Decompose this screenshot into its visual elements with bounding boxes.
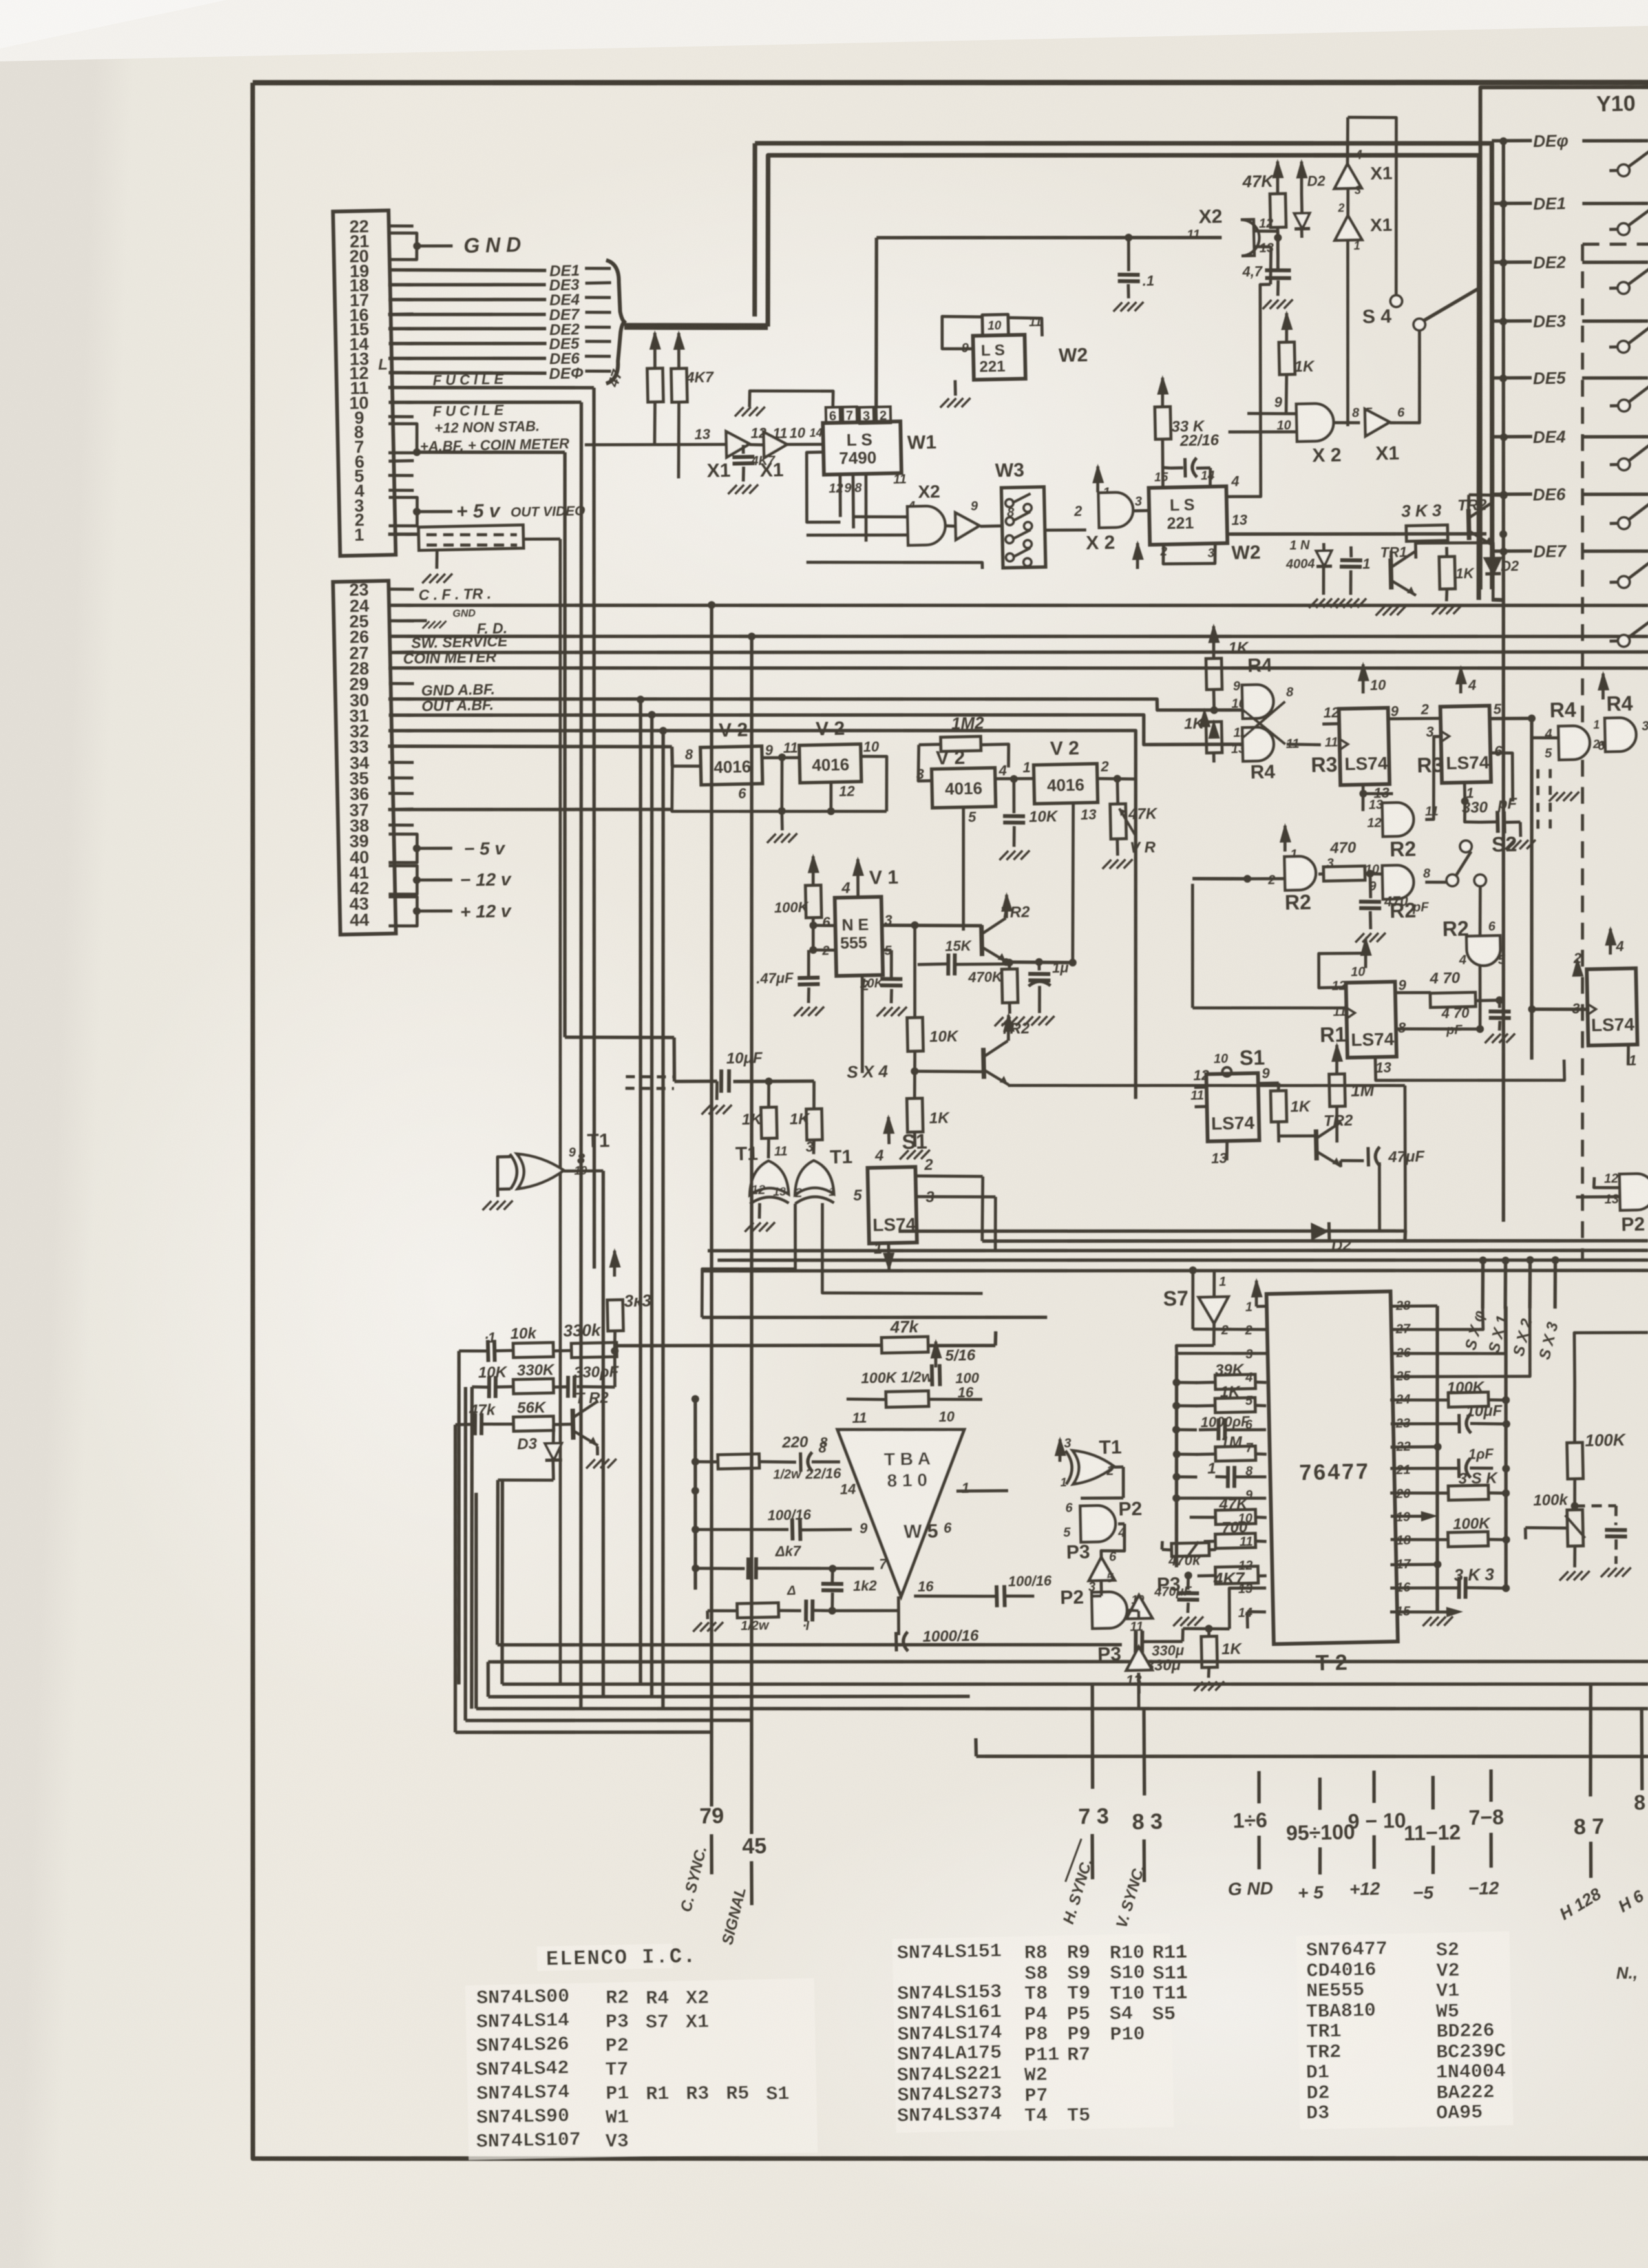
connector J1 pin stubs — [388, 226, 414, 227]
V2#2 wires — [860, 756, 888, 812]
switch box W3 — [1001, 487, 1046, 567]
wire 1680 820 connect — [1085, 521, 1086, 530]
wire bus jogs near sx — [1408, 1250, 1410, 1260]
wire SW.SERVICE — [389, 626, 1648, 678]
NE555 out pin3 — [882, 923, 982, 928]
wire to right LS74 — [1532, 1008, 1587, 1011]
inverter X1 b — [750, 445, 764, 445]
wire R2b in from node — [1370, 869, 1383, 874]
wire X2 lower inputs from W2 — [1234, 414, 1248, 452]
GND pin bracket 21-20 — [388, 233, 417, 260]
stub 73 — [1090, 1684, 1094, 1789]
resistor 4K7 vertical — [678, 333, 679, 368]
cap .1 with gnd — [1125, 234, 1132, 242]
pot 100k right — [1567, 1509, 1583, 1546]
wire R3b pin1 down to 330pF — [1464, 783, 1466, 801]
wire R3b q right — [1489, 718, 1532, 719]
bus upper horizontal — [755, 128, 1501, 605]
connector J2 pin stubs — [388, 589, 414, 590]
wire pin27 sx — [1390, 1309, 1483, 1332]
wire pin28 — [1390, 1305, 1437, 1307]
wire R4 out to R3 LS74 — [1287, 744, 1321, 746]
ground near cable — [436, 551, 438, 569]
diode D2 on bus — [1311, 1223, 1329, 1241]
wire DE bundle to bus — [624, 323, 768, 330]
label FUCILE x2 — [388, 383, 594, 392]
wire 100K to tri — [846, 1399, 847, 1429]
connector J2 body (pins 23-44) — [333, 581, 396, 935]
switch S4 — [1390, 295, 1402, 307]
wires RC rows left verticals — [452, 1351, 466, 1685]
cap .1 b — [1349, 547, 1353, 558]
wire bus verticals mid — [637, 696, 644, 704]
R4 cross wires — [1239, 702, 1287, 737]
wire R2b out to S2 — [1425, 881, 1452, 883]
resistor 47 vertical — [654, 333, 655, 368]
connector J1 body (pins 22-1) — [333, 211, 396, 556]
pin9 wire — [1176, 1496, 1266, 1500]
V2#3 wires — [918, 744, 931, 781]
cap 4,7 — [1277, 238, 1278, 269]
stub 9-10 +12 — [1373, 1770, 1375, 1803]
W2 pin13 wire right — [1226, 529, 1486, 539]
stub 95:100 +5 — [1319, 1778, 1320, 1810]
p22 wire — [1391, 1446, 1438, 1448]
wire xor route row — [702, 1310, 1047, 1325]
diode D2 b — [1492, 551, 1495, 558]
W1 top-left gnd loop — [749, 389, 834, 409]
resistor 1K r4b — [1212, 720, 1216, 724]
resistor 470K — [1008, 963, 1011, 970]
wire COIN METER — [388, 642, 1648, 695]
brace for DE bundle — [604, 260, 626, 384]
gate R4 right b — [1603, 673, 1604, 699]
resistor 1K t1a — [768, 1082, 770, 1108]
cap 10K gnd — [1013, 779, 1015, 814]
arrow p19 — [1391, 1516, 1422, 1517]
resistor 1M — [1336, 1045, 1338, 1074]
wire pin14 — [1247, 1612, 1266, 1613]
wires S1 right — [1340, 1160, 1364, 1161]
right rail 76477 — [1431, 1306, 1444, 1612]
wire NE555 bottom to 10K — [860, 976, 864, 1073]
Y10 DE lines — [1481, 141, 1526, 1221]
resistor 39K p4 — [1176, 1352, 1266, 1356]
V2#4 out wire — [1097, 778, 1136, 780]
pins 8-7 bracket +12V — [388, 423, 417, 454]
TBA right pins — [956, 1490, 1008, 1492]
resistor 1K s1 — [1278, 1083, 1279, 1091]
resistor 1K p area — [1207, 1629, 1210, 1637]
Y10 box — [1470, 82, 1648, 590]
wire W1 left loop — [805, 452, 840, 523]
wire pin2 from S7 — [1193, 1328, 1267, 1331]
wire F.D. — [388, 610, 1648, 663]
switch S2 — [1460, 841, 1472, 852]
junction dots sx — [1479, 1256, 1486, 1264]
resistor 33K — [1162, 378, 1163, 407]
pot 47K VR — [1110, 804, 1126, 839]
wire R1 pin8 loop — [1393, 969, 1523, 1031]
bus lower horizontal — [765, 140, 1489, 614]
wire R3a q to R3b — [1388, 718, 1440, 720]
resistor 1K d — [907, 1098, 923, 1132]
res 100K right col — [1554, 1259, 1555, 1261]
diode D2 top — [1301, 162, 1302, 194]
resistor 10K b — [913, 925, 917, 1014]
wire LS74r to P2 right — [1636, 1009, 1648, 1010]
Y10 dashed border — [1561, 244, 1604, 1260]
wire down from R3b pin6 — [1489, 752, 1514, 802]
stub 87 H128 — [1588, 1684, 1593, 1796]
wire X2 input from LS221 — [1268, 284, 1273, 414]
wire nest h4 — [465, 1714, 752, 1726]
resistor 4K7 mid — [742, 445, 745, 454]
stub right edge — [1640, 1709, 1643, 1790]
wire pin37 to V2 bus — [388, 804, 672, 815]
-12v bracket pins41-42 — [388, 865, 417, 895]
W2 lower pin4 wire up to bus — [1222, 284, 1275, 497]
left pin rail 76477 — [1223, 1354, 1234, 1588]
wire row30 to R4 1K node — [388, 681, 1252, 728]
resistor 1K r4a — [1213, 626, 1214, 658]
wire R2a in loop — [1363, 793, 1383, 812]
wire pin25 sx — [1389, 1308, 1531, 1380]
IC W2 LS221 upper — [973, 335, 1025, 380]
TBA left rail — [695, 1426, 850, 1433]
cap 470pF — [1369, 874, 1373, 898]
wire long 2545 left — [498, 1632, 1122, 1657]
TR2b emitter to right — [1008, 1077, 1405, 1094]
wire R2c left input — [1247, 878, 1285, 879]
wire into inverters X1 — [585, 442, 726, 448]
cap 1u — [1037, 962, 1041, 971]
cap 1000/16 — [898, 1597, 899, 1635]
wires R4 right — [1525, 719, 1539, 1060]
IC T2 76477 — [1267, 1292, 1398, 1644]
wire nest h1 — [502, 1660, 1648, 1708]
stub 11-12 -5 — [1432, 1776, 1433, 1809]
wire pin33 to V2 area — [388, 740, 672, 753]
W2 upper top pins — [982, 315, 1009, 337]
border frame — [253, 52, 1648, 114]
resistor 100K NE555 — [812, 856, 814, 885]
wires at P2 right — [1594, 1177, 1620, 1188]
resistor 47K top — [1277, 162, 1278, 194]
wire nest h3 — [476, 1684, 1648, 1733]
resistor 1K c — [1445, 547, 1448, 557]
wire X1 top to S4 frame — [1347, 116, 1400, 297]
wire D3 bottom loop — [498, 1479, 553, 1482]
wire 12-13 to down — [1270, 247, 1272, 284]
dashed pair small — [1537, 770, 1539, 833]
wire X1 out to S4 — [1388, 362, 1421, 423]
IC W1 LS7490 — [823, 421, 902, 474]
XOR outputs route — [700, 1204, 798, 1318]
V2#4 bottom wire 13 — [1070, 804, 1077, 963]
wire C.F.TR. — [388, 579, 1648, 632]
DE wires pins 19-12 — [388, 267, 546, 274]
resistor 1K t1b — [814, 1081, 815, 1109]
wire TR1-TR2 base link — [1188, 542, 1299, 587]
resistor 1K vertical — [1286, 313, 1287, 342]
wire nest verticals — [498, 1480, 507, 1684]
stub 1:6 GND — [1258, 1771, 1260, 1803]
table highlight stripes — [537, 1944, 673, 1971]
wire left loop R1 R2 — [1247, 831, 1364, 879]
wire R2a out up — [1424, 737, 1442, 820]
TR2a emitter node — [1006, 940, 1007, 982]
wire under W1 — [807, 559, 982, 573]
NE555 pin5 cap 10K — [881, 950, 891, 950]
bus lines above 76477 — [898, 1221, 1405, 1251]
dashed net right — [1575, 1505, 1616, 1506]
wire W3 out — [1044, 529, 1086, 530]
wire X2 out left — [876, 231, 1221, 245]
paper top edge highlight — [0, 0, 1648, 61]
wire R1 pin13 down right — [1375, 1054, 1565, 1084]
wire right col top — [1574, 1331, 1648, 1383]
S2 to R2d wire — [1479, 885, 1481, 936]
inverter X1 a — [726, 431, 750, 457]
V2#1 wires — [671, 762, 887, 816]
wire row32 staircase — [388, 715, 1143, 1115]
right rail gnd — [1437, 1588, 1438, 1613]
wire W3 to X2 gate — [1061, 529, 1079, 530]
cap .47uF — [813, 949, 834, 950]
wire to LS74 right low — [1532, 1008, 1587, 1011]
gate X2 before W2 — [1097, 467, 1099, 492]
IC W2 LS221 lower — [1148, 487, 1227, 545]
wire collector rail — [1270, 542, 1271, 543]
R1 top loop — [1318, 956, 1357, 984]
wire fucile verticals — [576, 388, 613, 1268]
wire pin26 sx — [1389, 1309, 1506, 1356]
arrow up pin1 — [1256, 1281, 1257, 1307]
wire long 2571 — [488, 1637, 1648, 1686]
wires P column — [1114, 1465, 1123, 1469]
pin1 shielded out-video cable — [388, 534, 418, 535]
-5v bracket pins39-40 — [388, 834, 417, 863]
grounds TR area — [1309, 599, 1318, 608]
p17 wire — [1390, 1564, 1437, 1566]
gnd 10uF — [717, 1081, 718, 1100]
wires around TR1/TR2 — [1227, 534, 1229, 535]
right rail verticals — [1500, 1307, 1512, 1588]
wire R2d down to R1 pin8 — [1479, 966, 1481, 1001]
gate R2 c inputs — [1284, 826, 1285, 852]
R1 wires — [1395, 992, 1431, 993]
wire row31 to R4 gate b — [389, 697, 1253, 762]
W2 lower bottom loop — [1163, 544, 1216, 565]
wire nest h5 — [456, 1727, 712, 1738]
+12v bracket pins43-44 — [388, 896, 417, 927]
gnd 4016 row — [780, 811, 783, 830]
pins 3-2 bracket +5v — [388, 497, 417, 527]
W2 upper gnd — [954, 380, 957, 395]
wire long 2718 right — [976, 1742, 1648, 1770]
Y10 switch contacts — [1618, 164, 1629, 176]
V2#3 bottom wire — [961, 808, 966, 930]
wire S4 down — [1419, 330, 1420, 362]
wire R3a pin13 node — [1363, 793, 1393, 794]
pin13 wire down — [1229, 1588, 1267, 1629]
long loop wire — [1225, 834, 1232, 999]
TBA810 triangle W5 — [838, 1427, 967, 1597]
stub 83 — [1143, 1709, 1146, 1796]
left rail verticals — [1172, 1356, 1181, 1567]
cap 47uF — [1366, 1147, 1370, 1166]
IC LS74 right-bottom — [1587, 968, 1637, 1045]
stub 7-8 -12 — [1490, 1769, 1492, 1801]
resistor 3K3 — [614, 1251, 615, 1277]
resistor 3K3 horizontal — [1406, 525, 1448, 541]
bus left vertical jog — [751, 143, 759, 317]
res 1k2 — [832, 1569, 832, 1582]
wire nest h2 — [488, 1686, 969, 1706]
arrow p15 — [1390, 1611, 1448, 1613]
W1 top pin squares 6 7 3 2 — [826, 407, 841, 423]
